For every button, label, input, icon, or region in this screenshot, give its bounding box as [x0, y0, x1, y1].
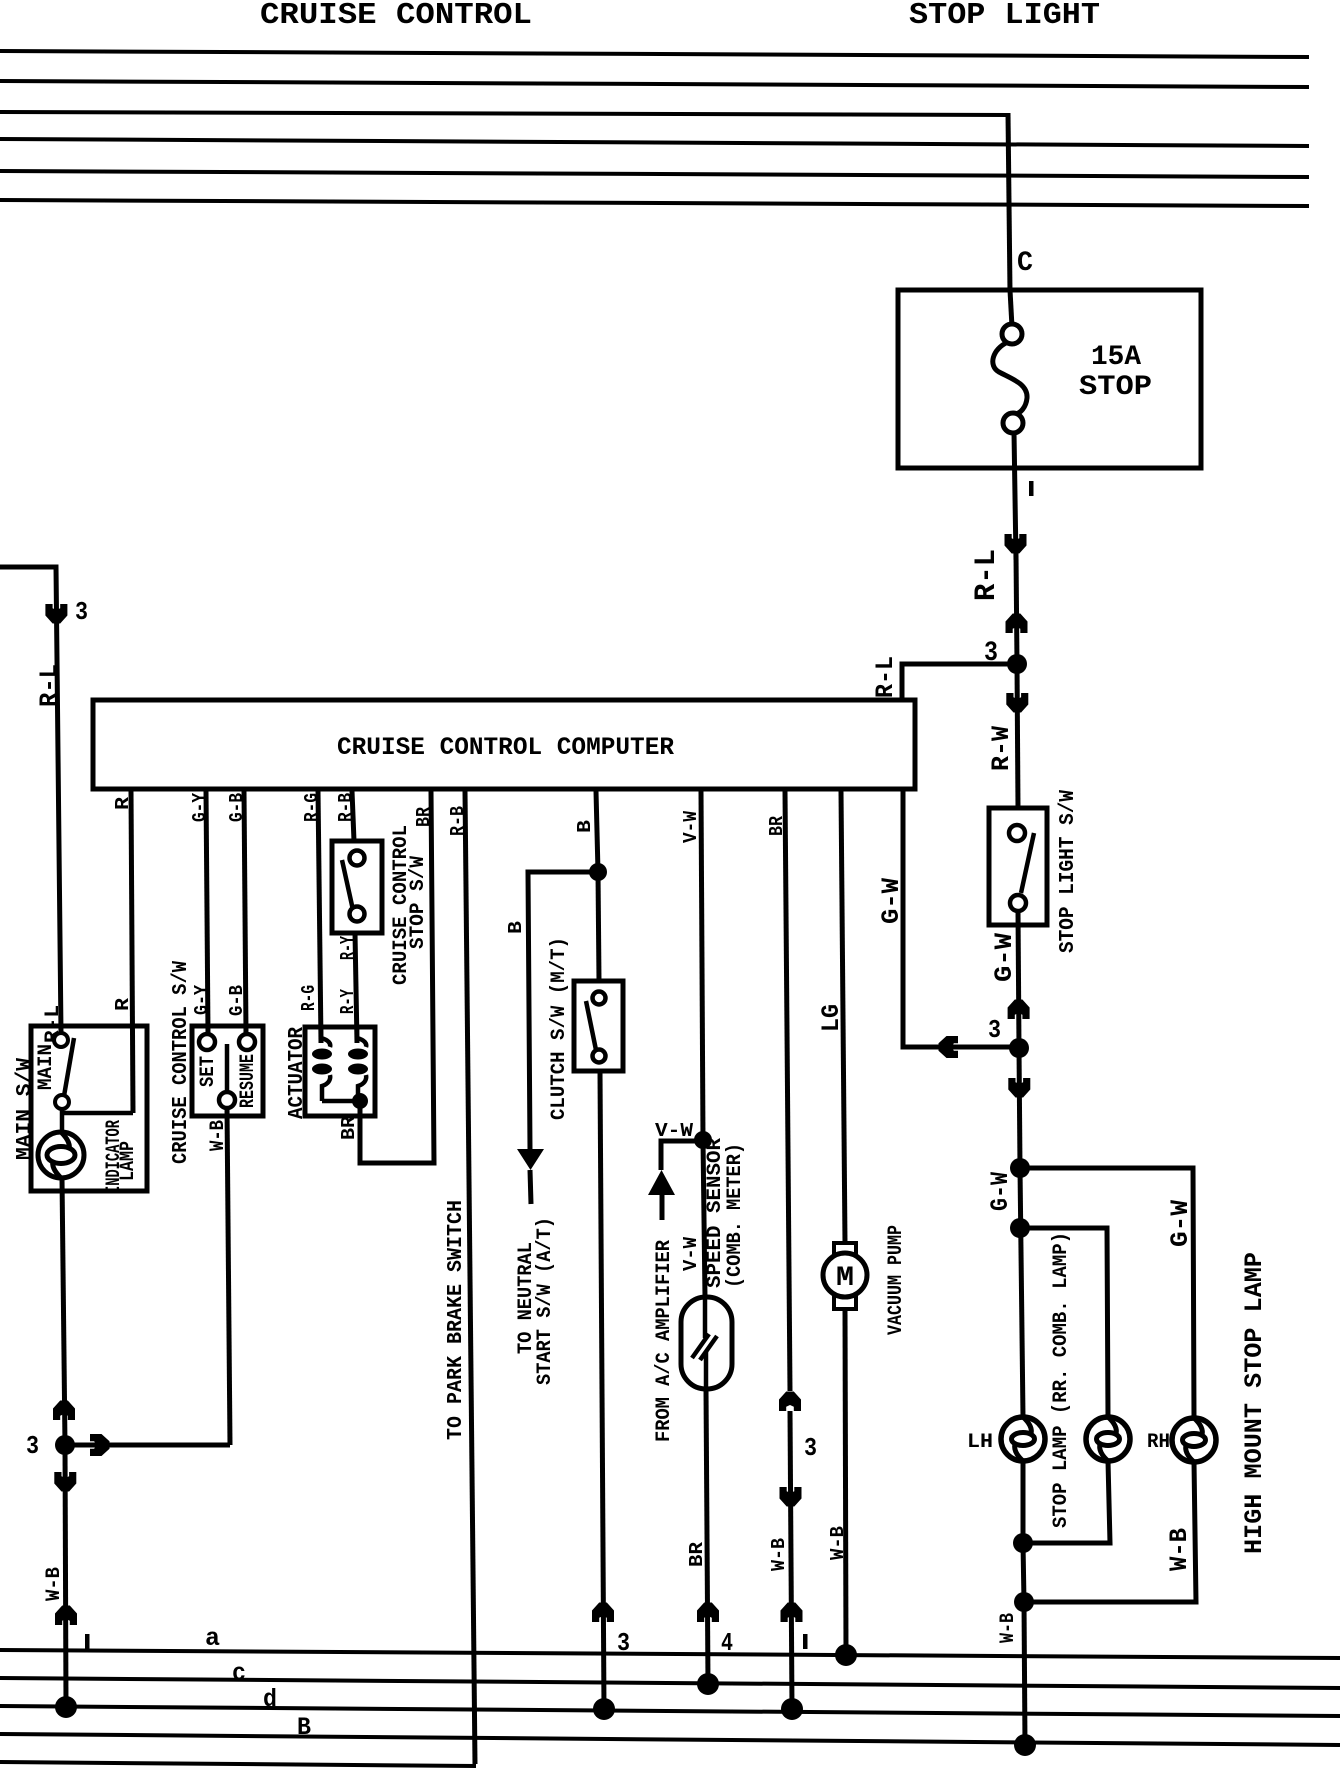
svg-text:15A: 15A	[1091, 342, 1141, 373]
svg-text:BR: BR	[686, 1541, 708, 1567]
svg-text:VACUUM PUMP: VACUUM PUMP	[885, 1225, 908, 1335]
svg-text:W-B: W-B	[997, 1613, 1020, 1643]
SET contact	[199, 1034, 215, 1050]
stop switch bottom contact	[350, 907, 365, 922]
wire BR actuator common	[360, 791, 434, 1163]
junction node (lamp returns)	[1013, 1533, 1033, 1553]
cruise stop switch box	[332, 841, 382, 933]
vacuum pump motor	[834, 1243, 856, 1256]
wire R computer to main switch	[131, 791, 133, 1113]
connector pair 3 (down)	[780, 1487, 802, 1507]
svg-text:V-W: V-W	[680, 1236, 702, 1271]
wire W-B to ground bus d (left)	[65, 1445, 66, 1707]
wire LH lamp to junction	[1021, 1461, 1026, 1543]
stop light switch blade	[1021, 833, 1034, 893]
main switch bottom contact	[55, 1095, 69, 1109]
wire below clutch switch	[600, 1071, 604, 1709]
junction node 3 (G-W)	[1009, 1038, 1029, 1058]
bottom bus line d	[0, 1706, 1340, 1716]
junction node on bus C (speed sensor)	[697, 1673, 719, 1695]
cruise control switch box	[192, 1026, 263, 1116]
main switch top contact	[54, 1033, 68, 1047]
junction node on bus d (left W-B)	[55, 1696, 77, 1718]
wire fuse input stub	[1010, 290, 1012, 327]
svg-text:CRUISE CONTROL COMPUTER: CRUISE CONTROL COMPUTER	[337, 733, 674, 762]
connector on left W-B (up)	[53, 1401, 75, 1421]
cruise switch common blade	[225, 1044, 230, 1092]
svg-text:CRUISE CONTROL S/W: CRUISE CONTROL S/W	[170, 961, 193, 1164]
wire W-B below vacuum pump	[845, 1309, 846, 1655]
pin label 1 (left)	[85, 1634, 90, 1649]
svg-text:G-W: G-W	[986, 1172, 1015, 1211]
stop light switch top contact	[1009, 825, 1025, 841]
wire W-B to ground bus	[1024, 1602, 1025, 1745]
svg-text:W-B: W-B	[827, 1526, 849, 1560]
svg-text:3: 3	[804, 1433, 817, 1463]
wire V-W computer to junction	[701, 791, 703, 1140]
connector on W-B wire (up)	[781, 1603, 803, 1623]
svg-text:R: R	[112, 997, 134, 1011]
junction node on bus A (vacuum pump)	[835, 1644, 857, 1666]
stop lamp RR middle	[1086, 1417, 1130, 1461]
bottom bus line B	[0, 1734, 1340, 1745]
wire W-B to ground bus d	[790, 1411, 792, 1709]
wire G-Y computer to SET	[206, 791, 208, 1034]
junction node (G-W to RH lamp)	[1010, 1158, 1030, 1178]
wire branch G-W to computer	[903, 791, 1019, 1047]
svg-text:MAIN: MAIN	[35, 1044, 58, 1090]
pin label 1	[1029, 481, 1034, 496]
actuator left coil	[321, 1027, 330, 1047]
actuator right coil	[357, 1027, 366, 1047]
svg-text:C: C	[1017, 248, 1033, 279]
junction node on bus B	[1014, 1734, 1036, 1756]
arrow from A/C amplifier	[648, 1170, 675, 1195]
junction node (G-W to RR lamp)	[1010, 1218, 1030, 1238]
wire R-B computer to stop switch	[352, 791, 354, 841]
wire G-W to LH lamp	[1020, 1168, 1023, 1417]
svg-text:R-L: R-L	[970, 549, 1004, 601]
junction node (V-W)	[694, 1131, 712, 1149]
bottom bus line e (park brake)	[0, 1762, 476, 1766]
wire W-B below lamps	[1023, 1543, 1024, 1602]
svg-text:B: B	[505, 921, 527, 934]
top bus line 4	[0, 139, 1309, 146]
stop switch top contact	[350, 851, 365, 866]
svg-text:3: 3	[75, 597, 88, 627]
svg-text:G-Y: G-Y	[191, 984, 213, 1015]
svg-text:STOP LIGHT S/W: STOP LIGHT S/W	[1057, 790, 1080, 953]
bottom bus line a	[0, 1650, 1340, 1658]
wire branch to A/C amplifier	[661, 1141, 703, 1170]
stop lamp LH	[1001, 1417, 1045, 1461]
arrow to neutral start switch	[517, 1149, 544, 1170]
wire stop feed from bus to fuse	[1008, 113, 1010, 292]
connector on speed sensor wire (up)	[697, 1603, 719, 1623]
svg-text:R-L: R-L	[871, 656, 900, 698]
svg-text:M: M	[836, 1263, 854, 1294]
svg-text:c: c	[232, 1659, 246, 1688]
top bus line 3 (stop feed)	[0, 112, 1008, 115]
svg-text:STOP S/W: STOP S/W	[407, 856, 430, 949]
svg-text:STOP LIGHT: STOP LIGHT	[909, 0, 1100, 33]
wire branch to computer (R-L)	[902, 664, 1017, 702]
svg-text:CRUISE CONTROL: CRUISE CONTROL	[260, 0, 532, 33]
wire W-B cruise switch down	[227, 1108, 230, 1445]
wire branch W-B to cruise switch	[65, 1443, 230, 1448]
svg-text:R-Y: R-Y	[337, 989, 359, 1014]
clutch switch top contact	[593, 992, 606, 1005]
wire BR below speed sensor	[706, 1389, 708, 1684]
svg-text:G-B: G-B	[226, 985, 248, 1016]
connector on G-W wire (up)	[1008, 1000, 1030, 1020]
wire middle lamp down	[1023, 1461, 1110, 1543]
junction node 3 (W-B)	[55, 1435, 75, 1455]
wire LG computer to vacuum pump	[841, 791, 845, 1243]
wire G-W to lamp junctions	[1019, 1048, 1020, 1168]
svg-text:LAMP: LAMP	[117, 1141, 140, 1181]
svg-text:a: a	[205, 1624, 220, 1653]
clutch switch bottom contact	[593, 1050, 606, 1063]
wire branch to high mount lamp	[1020, 1168, 1194, 1418]
connector on R-L wire (up)	[1006, 614, 1028, 634]
connector on R-L wire (down)	[1005, 534, 1027, 554]
high mount stop lamp RH	[1172, 1418, 1216, 1462]
junction node on bus d (clutch)	[593, 1698, 615, 1720]
fuse box 15A STOP	[898, 290, 1201, 468]
svg-text:W-B: W-B	[1165, 1528, 1194, 1571]
wire main switch to lamp	[60, 1109, 65, 1133]
connector pair 3 (up)	[779, 1392, 801, 1412]
svg-text:LH: LH	[967, 1431, 993, 1454]
svg-text:3: 3	[988, 1015, 1001, 1045]
svg-text:RESUME: RESUME	[237, 1054, 260, 1108]
wire W-B below main switch	[62, 1178, 65, 1445]
wire R-L fuse to junction	[1016, 554, 1017, 664]
wire V-W to speed sensor	[703, 1140, 705, 1297]
svg-text:START S/W (A/T): START S/W (A/T)	[534, 1217, 557, 1385]
svg-text:FROM A/C AMPLIFIER: FROM A/C AMPLIFIER	[653, 1240, 676, 1442]
wire R-Y stop switch to actuator	[355, 933, 357, 1043]
svg-text:R-L: R-L	[35, 664, 64, 707]
clutch switch box	[574, 981, 623, 1071]
svg-text:STOP LAMP (RR. COMB. LAMP): STOP LAMP (RR. COMB. LAMP)	[1050, 1232, 1073, 1528]
connector on G-W wire 2 (down)	[1008, 1078, 1030, 1098]
main switch box	[31, 1026, 147, 1191]
wire B to clutch switch	[598, 872, 599, 981]
svg-text:STOP: STOP	[1079, 372, 1152, 403]
svg-text:G-W: G-W	[1166, 1200, 1195, 1247]
svg-text:R-Y: R-Y	[337, 936, 359, 960]
wire main switch to R pin	[62, 1111, 133, 1116]
top bus line 6	[0, 200, 1309, 206]
svg-text:HIGH MOUNT STOP LAMP: HIGH MOUNT STOP LAMP	[1240, 1252, 1269, 1554]
svg-text:R-W: R-W	[987, 726, 1016, 771]
wire BR computer down	[785, 791, 790, 1391]
bottom bus line c	[0, 1678, 1340, 1688]
svg-text:RH: RH	[1147, 1431, 1170, 1454]
connector on clutch wire (up)	[592, 1603, 614, 1623]
stop light switch bottom contact	[1010, 895, 1026, 911]
svg-text:SET: SET	[197, 1056, 220, 1087]
top bus line 5	[0, 171, 1309, 177]
actuator internal wire	[322, 1099, 360, 1104]
stop light switch box	[989, 808, 1047, 925]
actuator box	[305, 1027, 375, 1116]
junction node on bus d (W-B)	[781, 1698, 803, 1720]
fuse F1 top contact	[1002, 324, 1022, 344]
fuse F1 element	[993, 342, 1027, 414]
RESUME contact	[239, 1034, 255, 1050]
wire G-W below switch	[1018, 911, 1019, 1048]
wire G-B computer to RESUME	[244, 791, 246, 1034]
connector below W-B junction (down)	[54, 1472, 76, 1492]
svg-text:R-G: R-G	[298, 985, 320, 1011]
junction node 3 (R-L)	[1007, 654, 1027, 674]
junction node (W-B returns)	[1014, 1592, 1034, 1612]
svg-text:W-B: W-B	[43, 1567, 66, 1601]
connector on G-W branch (left)	[939, 1036, 959, 1058]
wire R-B to park brake switch	[465, 791, 475, 1764]
wire RH lamp return	[1024, 1462, 1196, 1602]
cruise switch common contact	[219, 1092, 235, 1108]
svg-text:G-W: G-W	[990, 933, 1019, 982]
svg-text:(COMB. METER): (COMB. METER)	[724, 1143, 747, 1288]
speed sensor body	[681, 1297, 732, 1389]
svg-text:ACTUATOR: ACTUATOR	[286, 1027, 309, 1119]
top bus line 2	[0, 81, 1309, 87]
wire branch to middle stop lamp	[1020, 1228, 1108, 1417]
top bus line 1	[0, 51, 1309, 57]
svg-text:B: B	[574, 820, 596, 833]
svg-text:BR: BR	[413, 806, 435, 827]
svg-text:3: 3	[26, 1431, 39, 1461]
svg-text:CLUTCH S/W (M/T): CLUTCH S/W (M/T)	[548, 937, 571, 1120]
svg-text:BR: BR	[338, 1115, 360, 1140]
wire R-G computer to actuator	[318, 791, 321, 1043]
stop switch blade	[342, 860, 353, 910]
svg-text:MAIN S/W: MAIN S/W	[14, 1058, 37, 1160]
connector on W-B branch (right)	[90, 1434, 110, 1456]
svg-text:W-B: W-B	[768, 1538, 790, 1571]
connector on left W-B lower (up)	[55, 1606, 77, 1626]
clutch switch blade	[586, 1001, 596, 1050]
wire branch B to neutral start	[528, 872, 598, 1149]
wire B computer down	[596, 791, 598, 872]
connector on left R-L (down)	[45, 604, 67, 624]
pin label 1 (right)	[803, 1634, 808, 1649]
connector on R-W wire (down)	[1006, 693, 1028, 713]
indicator lamp	[38, 1132, 84, 1178]
fuse F1 bottom contact	[1003, 413, 1023, 433]
wire R-L feed left	[0, 567, 61, 1033]
wire fuse output	[1014, 432, 1016, 560]
cruise control computer box	[93, 700, 915, 789]
junction node (B wire)	[589, 863, 607, 881]
actuator internal node	[352, 1093, 368, 1109]
pin G-W wire (computer)	[901, 791, 906, 1047]
svg-text:TO PARK BRAKE SWITCH: TO PARK BRAKE SWITCH	[445, 1200, 468, 1440]
wire R-L junction to stop light switch	[1017, 664, 1018, 808]
speed sensor reed	[703, 1297, 708, 1338]
main switch blade	[64, 1038, 74, 1096]
